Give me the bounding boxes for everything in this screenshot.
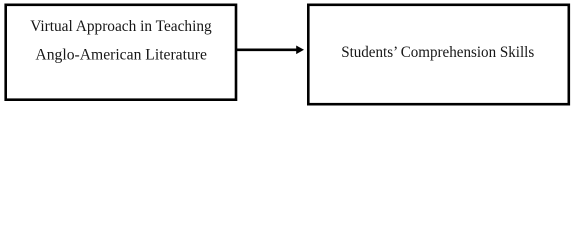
arrow shaft <box>237 48 298 51</box>
box: dependent variable <box>308 5 569 104</box>
conceptual framework diagram: two boxes joined by an arrow <box>0 0 574 114</box>
svg-text:Virtual Approach in Teaching: Virtual Approach in Teaching <box>30 18 212 35</box>
svg-text:Anglo-American Literature: Anglo-American Literature <box>35 46 207 63</box>
box: independent variable <box>6 5 236 100</box>
svg-text:Students’ Comprehension Skills: Students’ Comprehension Skills <box>341 44 534 61</box>
arrow head <box>296 46 304 55</box>
